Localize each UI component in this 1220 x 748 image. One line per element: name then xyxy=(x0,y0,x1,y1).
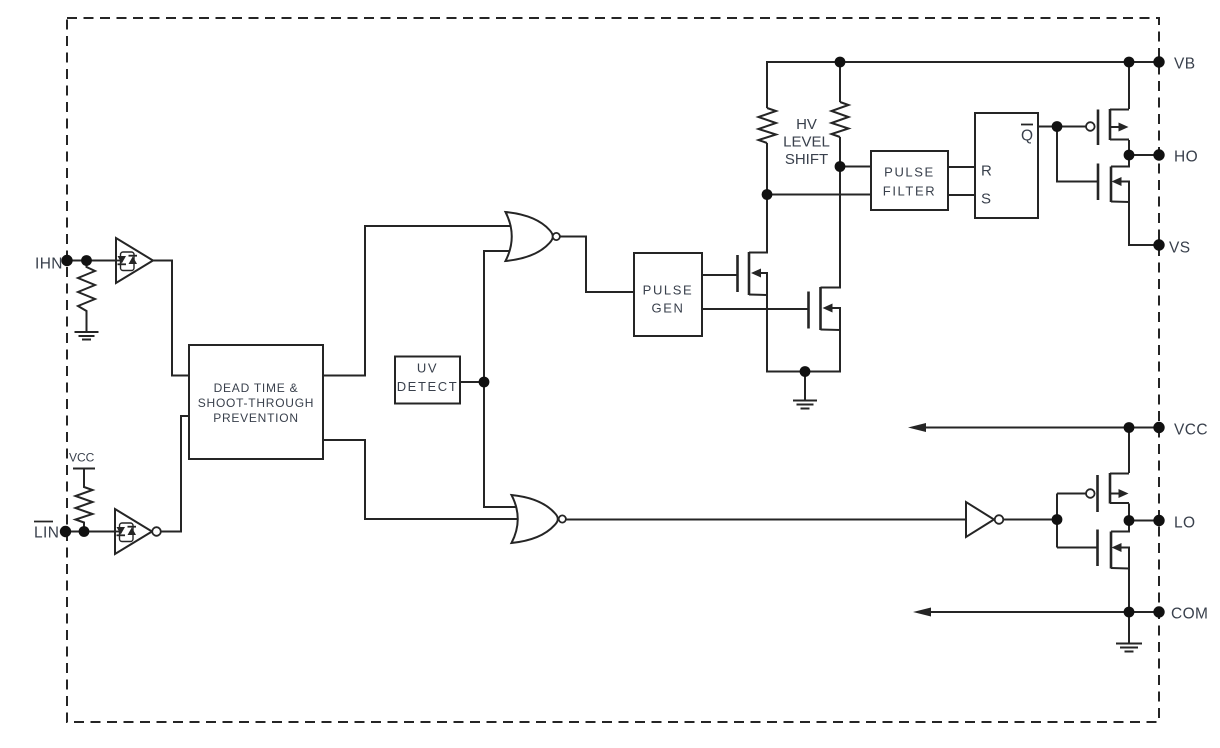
wire R2 bottom lead to M2 drain xyxy=(821,137,841,288)
wire UV bus vertical to NOR inputs xyxy=(484,251,517,507)
ground under level shifters xyxy=(793,372,817,409)
NOR gate G2 xyxy=(512,495,566,543)
transistor M3 HO high-side PMOS xyxy=(1086,109,1129,145)
wire Qbar node down to M4 gate xyxy=(1057,127,1097,182)
node R junction xyxy=(835,161,846,172)
transistor M6 LO low-side NMOS xyxy=(1098,530,1130,569)
svg-text:R: R xyxy=(981,162,992,179)
svg-text:LIN: LIN xyxy=(34,525,59,542)
svg-text:SHOOT-THROUGH: SHOOT-THROUGH xyxy=(198,396,314,410)
svg-text:VB: VB xyxy=(1174,56,1195,73)
wire R node to pulse filter xyxy=(840,166,871,168)
svg-text:DEAD TIME &: DEAD TIME & xyxy=(214,381,299,395)
ground under COM xyxy=(1116,612,1142,652)
wire M6 source to COM rail xyxy=(1128,569,1130,613)
dead time block xyxy=(189,345,323,459)
UV detect block xyxy=(395,357,460,404)
node Qbar junction xyxy=(1052,121,1063,132)
pin dots xyxy=(60,56,1165,617)
node VB rail M3 junction xyxy=(1124,57,1135,68)
wire R2 top lead xyxy=(839,62,841,102)
transistor M1 level-shift left xyxy=(738,252,768,295)
pin VB xyxy=(1153,56,1164,67)
svg-text:GEN: GEN xyxy=(652,301,685,316)
resistor R1 HV level shift left xyxy=(759,108,777,143)
node level-shift source junction xyxy=(800,366,811,377)
svg-text:LEVEL: LEVEL xyxy=(783,133,830,150)
ground under R3 xyxy=(75,332,99,340)
transistor M2 level-shift right xyxy=(809,287,841,330)
wire IHN input to buffer xyxy=(67,260,116,262)
wire pulse gen upper output to M1 gate xyxy=(702,274,737,276)
wire LIN buffer output to dead-time block xyxy=(161,416,189,532)
HV level shift label xyxy=(783,116,830,168)
node VCC junction xyxy=(1124,422,1135,433)
svg-text:S: S xyxy=(981,190,991,207)
svg-text:VCC: VCC xyxy=(69,451,95,465)
node HO junction xyxy=(1124,150,1135,161)
wire gate node to M5 gate bubble xyxy=(1057,493,1086,495)
svg-text:HO: HO xyxy=(1174,149,1198,166)
arrow VCC to left xyxy=(908,423,926,432)
pin LO xyxy=(1153,515,1164,526)
wire COM rail xyxy=(929,611,1159,613)
node VB rail R2 junction xyxy=(835,57,846,68)
svg-text:UV: UV xyxy=(417,361,438,376)
svg-text:DETECT: DETECT xyxy=(397,379,459,394)
wire inverter output to driver gates node xyxy=(1004,519,1058,521)
svg-text:PREVENTION: PREVENTION xyxy=(213,411,299,425)
resistor R2 HV level shift right xyxy=(832,102,849,137)
node IHN junction xyxy=(81,255,92,266)
svg-text:FILTER: FILTER xyxy=(883,184,936,199)
svg-text:VS: VS xyxy=(1169,240,1190,257)
svg-text:LO: LO xyxy=(1174,515,1195,532)
buffer U2 LIN inverting input triangle xyxy=(115,509,161,554)
wire LIN input to buffer xyxy=(66,531,115,533)
node LIN junction xyxy=(79,526,90,537)
wire gate node vertical xyxy=(1056,494,1058,548)
resistor R4 LIN pull-up xyxy=(76,469,93,532)
wire M3 source to HO node xyxy=(1128,140,1130,155)
node COM junction xyxy=(1124,607,1135,618)
inverter U3 before LO driver xyxy=(966,502,1003,537)
wire NOR G1 output to pulse gen xyxy=(560,237,634,293)
svg-text:VCC: VCC xyxy=(1174,422,1208,439)
pin LIN xyxy=(60,526,71,537)
svg-text:SHIFT: SHIFT xyxy=(785,151,828,168)
svg-text:PULSE: PULSE xyxy=(884,165,935,180)
wire LO node to pin xyxy=(1129,520,1159,522)
wire dead-time top output to NOR gate G1 upper input xyxy=(323,226,512,376)
wire M3 drain from VB rail xyxy=(1128,62,1130,109)
node UV bus junction xyxy=(479,377,490,388)
pin IHN xyxy=(61,255,72,266)
wire dead-time bottom output to NOR gate G2 lower input xyxy=(323,440,518,519)
NOR gate G1 xyxy=(506,212,560,261)
node LO junction xyxy=(1124,515,1135,526)
wire LO node to M6 drain xyxy=(1111,521,1129,532)
transistor M4 HO low-side NMOS xyxy=(1098,164,1129,203)
buffer U1 IHN input triangle xyxy=(116,238,153,283)
arrow COM to left xyxy=(913,608,931,617)
wire R3 to ground xyxy=(86,315,88,332)
LIN overbar xyxy=(34,521,53,523)
pin VCC xyxy=(1153,422,1164,433)
wire pulse filter R output to latch xyxy=(948,166,975,168)
wire NOR G2 output to inverter U3 xyxy=(566,519,966,521)
VCC bar symbol for LIN pull-up xyxy=(73,468,95,470)
wire pulse filter S output to latch xyxy=(948,194,975,196)
wire pulse gen lower output to M2 gate xyxy=(702,308,808,310)
resistor R3 IHN pull-down xyxy=(78,261,95,316)
wire IHN buffer output to dead-time block xyxy=(153,261,189,376)
svg-text:PULSE: PULSE xyxy=(643,283,694,298)
wire M5 source to LO node xyxy=(1128,504,1130,521)
wire VCC rail xyxy=(924,427,1159,429)
svg-text:Q: Q xyxy=(1021,128,1033,145)
pin VS xyxy=(1153,239,1164,250)
transistor M5 LO high-side PMOS xyxy=(1086,473,1129,512)
wire gate node to M6 gate xyxy=(1057,547,1097,549)
wire HO node to M4 drain xyxy=(1111,155,1129,167)
pulse gen block xyxy=(634,253,702,336)
latch U4 R/S with Qbar output xyxy=(975,113,1038,218)
pulse filter block xyxy=(871,151,948,210)
pin HO xyxy=(1153,149,1164,160)
wire M4 source to VS pin xyxy=(1129,202,1159,245)
svg-text:HV: HV xyxy=(796,116,817,133)
svg-text:IHN: IHN xyxy=(35,256,63,273)
wire HO node to pin xyxy=(1129,154,1159,156)
node LO gate junction xyxy=(1052,514,1063,525)
wire UV detect output xyxy=(460,381,484,383)
wire top VB rail xyxy=(767,62,1159,108)
pin COM xyxy=(1153,606,1164,617)
node S junction xyxy=(762,189,773,200)
wire R1 bottom lead to M1 drain xyxy=(749,143,767,253)
svg-text:COM: COM xyxy=(1171,606,1208,623)
wire S node to pulse filter xyxy=(767,194,871,196)
wire M5 drain from VCC rail xyxy=(1128,428,1130,474)
wire latch Qbar output to M3 gate bubble xyxy=(1038,126,1086,128)
wire level-shift common source node xyxy=(767,295,840,372)
